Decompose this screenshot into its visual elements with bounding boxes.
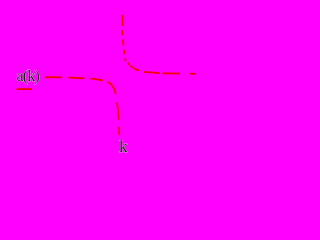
curve a(k) upper branch dash 9 xyxy=(144,72,160,73)
curve a(k) upper branch dash 3 xyxy=(122,40,125,46)
curve a(k) upper branch dash 11 xyxy=(189,73,196,75)
curve a(k) upper branch dash 8 xyxy=(134,69,139,71)
curve a(k) upper branch dash 1 (top vertical) xyxy=(121,15,123,26)
curve a(k) upper branch dash 2 xyxy=(121,30,123,35)
curve a(k) upper branch dash 7 xyxy=(130,66,133,68)
curve a(k) left branch dash 3 xyxy=(90,79,103,81)
curve a(k) left branch dash 5 (descending) xyxy=(117,103,119,120)
curve a(k) left branch dash 6 (bottom) xyxy=(118,127,120,136)
curve a(k) upper branch dash 5 xyxy=(124,58,127,61)
curve a(k) left branch dash 2 xyxy=(68,77,84,80)
curve a(k) upper branch dash 4 xyxy=(123,50,126,55)
red bar under label a(k) xyxy=(17,88,33,90)
svg-text:a(k): a(k) xyxy=(17,68,40,85)
curve a(k) upper branch dash 6 xyxy=(128,63,130,65)
curve a(k) left branch dash 1 xyxy=(45,76,62,78)
curve a(k) left branch dash 4 (bend) xyxy=(107,82,116,95)
svg-text:k: k xyxy=(119,137,128,154)
curve a(k) upper branch dash 10 xyxy=(163,72,180,74)
